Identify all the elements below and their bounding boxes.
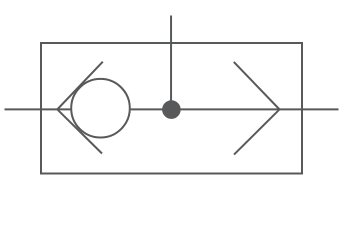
check valve seat (left chevron) (57, 62, 103, 154)
junction node (dot) (162, 100, 181, 119)
check valve ball (71, 79, 130, 138)
valve body box (41, 43, 302, 174)
pilot line (vertical wire) (170, 16, 172, 110)
wire: left inlet line (5, 108, 71, 110)
flow arrow (right chevron) (234, 62, 280, 155)
wire: outlet line to the right (131, 108, 339, 110)
